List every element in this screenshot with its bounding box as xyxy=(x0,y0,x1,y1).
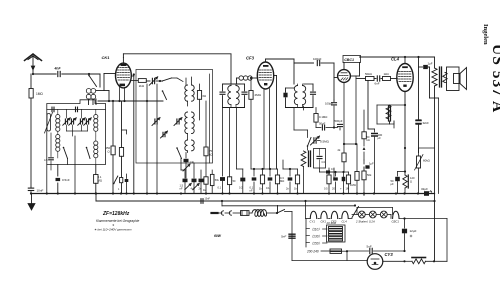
capacitor 32uF (main smoothing) xyxy=(421,187,432,196)
mains connector contacts xyxy=(221,211,240,215)
resistor pad2 xyxy=(203,177,208,194)
svg-text:10nF: 10nF xyxy=(37,189,44,193)
selector resistor r150 xyxy=(329,237,343,241)
wave band switch S1a xyxy=(88,73,97,87)
title Ingelen xyxy=(482,24,489,45)
wire grid bus y101 xyxy=(98,100,163,102)
wire CK1 cathode down xyxy=(120,87,125,101)
note brackets xyxy=(96,219,139,223)
resistor 250ohm xyxy=(106,100,116,194)
svg-text:50k: 50k xyxy=(367,173,372,177)
svg-text:50k: 50k xyxy=(215,179,220,182)
output transformer core xyxy=(440,67,442,87)
heater CF3 xyxy=(329,211,338,223)
resistor 0.1M vert xyxy=(314,108,327,128)
wire left lead down xyxy=(46,165,48,195)
svg-text:20: 20 xyxy=(332,187,335,191)
IF1 under components xyxy=(218,108,246,194)
heater CBC1 xyxy=(388,211,447,223)
capacitor (rail mid) xyxy=(76,107,78,112)
capacitor 0.5nF xyxy=(56,165,70,194)
wire B+ trunk x434 xyxy=(435,98,439,261)
capacitor 500pF xyxy=(334,119,343,130)
svg-text:+: + xyxy=(340,187,342,191)
variable resistor 60k xyxy=(415,148,431,194)
resistor net a xyxy=(338,144,347,172)
capacitor 5nF on mains drop xyxy=(281,234,295,238)
svg-text:1μF: 1μF xyxy=(369,162,374,166)
resistor 6ohm xyxy=(197,84,206,120)
band switch S1c xyxy=(86,147,90,159)
heater CY3 xyxy=(310,211,317,223)
wire cathode bus xyxy=(251,168,278,170)
svg-text:50: 50 xyxy=(233,180,236,183)
tube CK1 xyxy=(116,58,132,88)
capacitor small (AVC) xyxy=(125,174,129,195)
dial lamp 3 xyxy=(377,211,388,218)
osc coil L6 xyxy=(185,112,194,153)
heater CL4 xyxy=(339,211,348,223)
svg-text:MΩ: MΩ xyxy=(280,179,284,183)
svg-text:0.1: 0.1 xyxy=(218,186,222,190)
wire CL4 cathode down xyxy=(404,92,406,176)
resistor 2k xyxy=(138,79,150,88)
wire CY3 to output xyxy=(383,260,406,262)
osc coil L5 (tapped) xyxy=(185,77,194,106)
svg-text:6nF: 6nF xyxy=(375,82,380,86)
wire CBC1 right down xyxy=(343,76,357,145)
capacitor 32nF xyxy=(416,57,429,153)
capacitor row c2 xyxy=(266,169,272,194)
resistor row r5 xyxy=(346,172,351,194)
selector resistor r130 xyxy=(329,232,343,236)
wire CBC1 top xyxy=(344,63,360,77)
tube CL4 xyxy=(397,64,413,92)
svg-text:C4: C4 xyxy=(322,160,326,164)
resistor row r2 xyxy=(275,169,284,194)
wire trimmer bus xyxy=(67,131,88,136)
main chassis bus xyxy=(31,192,435,194)
svg-text:0.5MΩ: 0.5MΩ xyxy=(320,140,330,144)
svg-text:100pF: 100pF xyxy=(325,102,333,106)
wire primary bottom xyxy=(430,67,439,98)
selector tap 130 xyxy=(310,235,327,239)
svg-text:0.5: 0.5 xyxy=(324,187,328,191)
svg-text:CK1: CK1 xyxy=(102,55,111,60)
svg-text:20 40Ω: 20 40Ω xyxy=(326,221,337,225)
speaker xyxy=(445,67,467,91)
output transformer primary xyxy=(432,57,437,86)
tube CY3 label xyxy=(385,252,394,257)
svg-text:〈110〉: 〈110〉 xyxy=(310,228,321,232)
capacitor 0.1uF mid xyxy=(320,167,336,178)
switch (AVC line) xyxy=(113,176,118,184)
trimmer C-ant 3 xyxy=(78,109,86,131)
wire IF1 top xyxy=(223,54,241,84)
coil L2 (MW antenna) xyxy=(56,109,60,158)
resistor 0.1M (AVC) xyxy=(94,165,102,194)
coil L3 (MW sec) xyxy=(94,109,98,136)
svg-text:CBC1: CBC1 xyxy=(344,58,354,62)
tone box xyxy=(314,149,326,169)
note measured xyxy=(94,223,132,232)
resistor row r4 xyxy=(324,168,331,194)
svg-text:2n: 2n xyxy=(286,187,289,191)
heater chain switch xyxy=(349,204,393,218)
svg-text:μF: μF xyxy=(391,182,395,186)
svg-text:50pF: 50pF xyxy=(319,122,326,126)
IF1 tuning cap right xyxy=(240,84,247,108)
svg-text:2k: 2k xyxy=(338,148,341,152)
capacitor 50pF xyxy=(316,122,335,131)
resistor row r1 xyxy=(259,169,265,194)
svg-text:120: 120 xyxy=(410,176,415,180)
secondary bus xyxy=(95,192,436,202)
osc switch S2c xyxy=(176,147,181,158)
wire af bus xyxy=(329,171,349,173)
wires under osc box xyxy=(147,159,206,194)
resistor 50k lower xyxy=(362,171,372,196)
svg-text:1MΩ: 1MΩ xyxy=(350,183,356,187)
capacitor 4nF xyxy=(54,67,62,77)
capacitor row c1 xyxy=(250,169,257,194)
svg-text:12μF: 12μF xyxy=(410,229,417,233)
svg-text:2MΩ: 2MΩ xyxy=(255,93,262,97)
IF2 secondary coil xyxy=(303,84,306,108)
svg-text:CK1: CK1 xyxy=(321,220,327,224)
svg-text:1kΩ: 1kΩ xyxy=(384,72,390,76)
svg-text:1M: 1M xyxy=(346,187,350,191)
tone resistor zig xyxy=(301,151,306,194)
svg-text:32μF: 32μF xyxy=(421,187,428,191)
svg-text:500pF: 500pF xyxy=(335,119,343,123)
wire screen bus xyxy=(283,160,298,170)
wire CF3 plate top xyxy=(266,59,295,84)
CL4 cathode cap bars xyxy=(377,105,406,128)
wire CF3 cathode down xyxy=(263,89,265,169)
svg-text:100pF: 100pF xyxy=(313,57,322,61)
wire CK1 plate to IF rail xyxy=(123,54,231,58)
wire right drop x447 xyxy=(446,219,448,262)
selector resistor box outer xyxy=(326,221,346,242)
svg-text:60kΩ: 60kΩ xyxy=(423,159,431,163)
wire osc verticals upper xyxy=(146,84,157,163)
title US 537 A xyxy=(489,44,500,113)
antenna xyxy=(25,54,42,74)
note ZF frequency xyxy=(102,211,130,217)
surge resistor xyxy=(405,258,448,264)
selector tap 110 xyxy=(310,228,327,232)
capacitor (rail left) xyxy=(52,107,54,112)
capacitor pad3 xyxy=(199,179,204,194)
svg-text:CY3: CY3 xyxy=(385,252,394,257)
volume pot 0.5M xyxy=(307,136,330,147)
tube CY3 xyxy=(367,254,383,270)
wire mains to CY3 xyxy=(292,260,367,262)
wire CL4 plate top xyxy=(360,56,435,64)
svg-text:∗: ∗ xyxy=(112,223,115,227)
IF1 bottom wire xyxy=(223,108,245,170)
tube CBC1 xyxy=(338,70,351,83)
svg-text:Ω: Ω xyxy=(108,150,110,154)
dial lamps label xyxy=(355,220,375,224)
wire right horizontals xyxy=(419,147,435,149)
wire AF node down xyxy=(368,81,375,130)
svg-text:0.1MΩ: 0.1MΩ xyxy=(319,115,327,119)
svg-text:1k: 1k xyxy=(259,187,262,191)
svg-text:nF: nF xyxy=(180,187,183,191)
trimmer C-ant 2 xyxy=(69,118,77,131)
resistor small (AVC) xyxy=(118,178,123,192)
svg-text:ZF=128kHz: ZF=128kHz xyxy=(102,211,130,217)
wire CF3 screen right xyxy=(274,76,277,170)
tube CF3 xyxy=(257,62,273,89)
tube CL4 label xyxy=(391,57,400,62)
IF2 bottom wire xyxy=(286,106,314,130)
trimmer osc 2 xyxy=(152,118,160,126)
svg-text:CBC1: CBC1 xyxy=(392,220,400,224)
heater feed line xyxy=(222,201,355,206)
resistor 2M grid xyxy=(249,77,262,169)
svg-text:50kΩ: 50kΩ xyxy=(365,72,373,76)
wire pot down xyxy=(294,130,308,150)
svg-text:5nF: 5nF xyxy=(367,245,372,249)
osc switch S2a xyxy=(159,78,183,82)
svg-text:Ω: Ω xyxy=(410,179,412,183)
IF1 secondary coil xyxy=(236,84,239,108)
capacitor 100pF top xyxy=(294,57,334,66)
wire antenna lead to coupling cap xyxy=(32,73,56,75)
wire IF1 sec top to grid coil xyxy=(237,78,240,84)
svg-text:10nF: 10nF xyxy=(205,198,211,201)
IF1 tuning cap left xyxy=(220,84,225,108)
capacitor 6nF coupling xyxy=(375,76,383,86)
svg-text:〈150〉: 〈150〉 xyxy=(310,242,322,246)
capacitor on bus drop xyxy=(201,198,210,204)
IF2 tuning cap left xyxy=(283,88,294,108)
svg-text:2 Skalenl. 0,2A: 2 Skalenl. 0,2A xyxy=(355,220,375,224)
svg-text:Ingelen: Ingelen xyxy=(482,24,489,45)
svg-text:1: 1 xyxy=(118,188,120,191)
ground arrow (chassis) xyxy=(28,194,35,211)
band switch S1b xyxy=(63,147,68,165)
svg-text:〈130〉: 〈130〉 xyxy=(310,235,322,239)
svg-text:6Ω: 6Ω xyxy=(203,94,207,98)
svg-text:CY1: CY1 xyxy=(310,220,316,224)
svg-text:2n: 2n xyxy=(199,187,202,191)
capacitor 1uF xyxy=(364,160,374,171)
IF2 primary coil xyxy=(294,84,297,108)
resistor 75k xyxy=(204,101,213,163)
osc switch S2b xyxy=(162,90,167,99)
selector tap 150 xyxy=(310,242,327,246)
svg-text:1k: 1k xyxy=(294,187,297,191)
tube CBC1 label xyxy=(343,56,361,63)
svg-text:CL4: CL4 xyxy=(342,220,348,224)
electrolytic 50uF xyxy=(391,172,406,194)
wire inner rail xyxy=(47,108,106,110)
svg-text:200-240: 200-240 xyxy=(306,250,319,254)
grid series coil xyxy=(239,76,258,80)
svg-text:0.1: 0.1 xyxy=(331,167,335,171)
mains plug xyxy=(212,212,223,214)
CL4 cathode resistor zig xyxy=(386,106,391,121)
capacitor pad 4nF xyxy=(191,179,200,194)
selector tap 200-240 xyxy=(306,250,330,254)
note power xyxy=(214,234,222,238)
svg-text:5nF: 5nF xyxy=(281,235,286,239)
trimmer C-ant 4 xyxy=(84,118,92,131)
selector resistor r110 xyxy=(329,227,343,231)
resistor 50k screen feed xyxy=(362,110,370,150)
capacitor 0.1uF (tone) xyxy=(417,56,432,69)
capacitor 100pF (diode load) xyxy=(325,100,337,128)
mains choke coil xyxy=(252,210,276,217)
resistor 1M (antenna leak) xyxy=(29,74,43,187)
trimmer small xyxy=(161,131,168,138)
mains switch xyxy=(276,206,292,261)
wire feed into osc box xyxy=(133,73,135,75)
svg-text:kΩ: kΩ xyxy=(367,138,370,142)
svg-text:MΩ: MΩ xyxy=(98,178,102,182)
oscillator shield box xyxy=(136,70,213,164)
svg-text:0.1: 0.1 xyxy=(266,186,270,190)
tube CK1 label xyxy=(102,55,111,60)
capacitor row c5 xyxy=(340,172,345,194)
dial lamp 1 xyxy=(352,211,365,218)
heater chain start xyxy=(306,201,311,247)
resistor row r3 xyxy=(294,169,300,194)
mains fuse xyxy=(241,211,253,216)
svg-text:4.5: 4.5 xyxy=(44,158,48,162)
svg-text:μF: μF xyxy=(378,136,382,140)
field choke 120ohm xyxy=(403,175,415,194)
svg-text:∗ bei 110–240V gemessen: ∗ bei 110–240V gemessen xyxy=(94,228,132,232)
tone choke bars xyxy=(309,151,311,167)
tube CF3 label xyxy=(246,56,255,61)
wire screen node xyxy=(345,144,364,160)
capacitor 100uF xyxy=(372,129,383,194)
capacitor 5nF xyxy=(347,245,406,254)
capacitor row c4 xyxy=(332,172,338,194)
antenna coupling coil T1 xyxy=(86,89,95,100)
svg-text:1μF: 1μF xyxy=(428,62,433,66)
capacitor 12uF xyxy=(402,217,417,251)
svg-text:1MΩ: 1MΩ xyxy=(36,92,43,96)
heater CK1 xyxy=(318,211,327,223)
wire CF3 aux down xyxy=(269,89,271,169)
svg-text:Klammerwerte bei Geographie: Klammerwerte bei Geographie xyxy=(96,219,139,223)
wire right feed y152 xyxy=(404,147,406,149)
capacitor row c3 xyxy=(286,169,292,194)
trimmer osc 3 xyxy=(174,118,182,126)
antenna coil shield box xyxy=(47,100,106,165)
svg-text:kΩ: kΩ xyxy=(209,152,213,156)
IF2 tuning cap right xyxy=(304,84,316,108)
capacitor 10nF (antenna to chassis) xyxy=(28,187,43,195)
capacitor 4.5nF xyxy=(44,133,53,165)
dial lamp 2 xyxy=(366,211,377,218)
resistor net b xyxy=(350,144,359,195)
resistor 50k (AF plate load) xyxy=(356,72,376,81)
output transformer secondary xyxy=(443,73,447,83)
svg-text:4nF: 4nF xyxy=(54,67,62,71)
wire coil to CK1 grid xyxy=(96,74,115,102)
resistor (osc grid) xyxy=(119,101,126,194)
IF1 primary coil xyxy=(228,84,231,108)
wire cap to band switch node xyxy=(62,74,100,87)
capacitor pad 1.5nF xyxy=(180,179,192,194)
wire to CBC1 diode xyxy=(334,63,337,100)
ferrite rod (tuned) xyxy=(45,113,53,134)
wire box verticals xyxy=(74,136,76,194)
capacitor osc 1nF xyxy=(183,153,194,179)
wire CK1 side down xyxy=(131,76,138,194)
wire selector to rectifier line xyxy=(346,251,348,261)
svg-text:0.5nF: 0.5nF xyxy=(62,178,70,182)
svg-text:US 537 A: US 537 A xyxy=(489,44,500,113)
svg-text:CF3: CF3 xyxy=(246,56,255,61)
wire box bottom exits xyxy=(50,165,52,171)
selector resistor r200 xyxy=(330,249,348,253)
padder trimmer 1 xyxy=(149,77,160,86)
svg-text:60W: 60W xyxy=(214,234,222,238)
coil L4 (LW sec) xyxy=(94,136,98,165)
svg-text:2kΩ: 2kΩ xyxy=(139,84,145,88)
resistor pad3 (tall) xyxy=(210,170,219,194)
wire coil cluster down into box xyxy=(89,99,97,105)
trimmer C-ant 1 xyxy=(63,109,71,131)
resistor 1k grid stopper xyxy=(383,72,398,81)
svg-text:32nF: 32nF xyxy=(423,121,430,125)
svg-text:nF: nF xyxy=(250,188,253,192)
svg-text:0.2: 0.2 xyxy=(239,187,243,190)
